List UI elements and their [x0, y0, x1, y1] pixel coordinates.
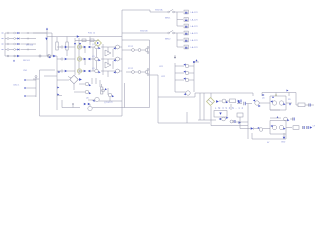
node	[74, 43, 76, 45]
label	[128, 46, 134, 48]
svg-text:LM393N-12: LM393N-12	[215, 107, 244, 110]
label	[215, 107, 244, 110]
wire	[33, 43, 36, 45]
node	[57, 87, 59, 89]
wire	[193, 62, 195, 92]
transistor Q34	[108, 93, 114, 97]
wire	[158, 96, 195, 98]
label	[267, 142, 270, 144]
switch SW1	[168, 9, 175, 13]
resistor R11	[56, 42, 58, 50]
resistor R13	[82, 39, 86, 42]
lamp L6	[184, 45, 188, 49]
connector J5	[33, 76, 39, 98]
label	[191, 25, 199, 28]
wire	[107, 47, 109, 53]
pin	[2, 43, 4, 45]
resistor R31	[101, 84, 103, 94]
transistor Q23	[101, 69, 122, 74]
lamp L2	[184, 18, 188, 22]
wire	[112, 61, 114, 69]
wire	[252, 138, 286, 140]
lamp L5	[184, 38, 188, 42]
wire	[21, 38, 27, 40]
svg-text:LA-12V: LA-12V	[191, 25, 199, 28]
connector J2	[7, 38, 9, 40]
wire	[122, 10, 152, 12]
svg-text:LA-12V: LA-12V	[191, 39, 199, 42]
transistor Q33	[88, 97, 99, 102]
wire	[270, 96, 286, 110]
contact	[147, 47, 149, 54]
switch S1	[26, 32, 33, 34]
svg-text:LA-12V: LA-12V	[191, 11, 199, 14]
transistor Q13	[90, 69, 101, 73]
wire	[47, 36, 122, 38]
wire	[74, 38, 76, 75]
diode D5	[53, 55, 56, 58]
diode D3	[17, 43, 19, 45]
wire	[270, 121, 286, 135]
wire	[84, 59, 86, 65]
wire	[174, 63, 176, 92]
fuse F4	[14, 49, 18, 51]
lamp L4	[184, 31, 188, 35]
svg-text:LA-12V: LA-12V	[191, 19, 199, 22]
transistor Q43	[175, 78, 194, 82]
wire	[199, 93, 201, 120]
svg-text:SW21B: SW21B	[140, 30, 148, 32]
label	[165, 39, 171, 41]
LED	[77, 57, 81, 61]
transistor Q60	[257, 127, 270, 131]
label R10	[88, 32, 96, 34]
LED D15	[95, 40, 102, 47]
wire	[177, 39, 183, 41]
label	[92, 56, 96, 58]
wire	[176, 33, 178, 47]
wire	[289, 93, 296, 106]
node	[57, 71, 60, 73]
wire	[5, 38, 7, 40]
label	[191, 32, 199, 35]
connector J1	[7, 32, 9, 34]
label	[191, 39, 199, 42]
diode D6	[17, 55, 19, 57]
wire	[109, 97, 111, 101]
transistor Q46	[219, 117, 229, 121]
node A	[46, 28, 48, 56]
resistor R53	[296, 103, 305, 107]
wire	[158, 122, 210, 124]
label	[23, 70, 28, 72]
label	[26, 45, 34, 47]
wire	[73, 84, 75, 91]
wire	[177, 46, 183, 48]
diode D12	[57, 58, 75, 61]
wire	[285, 134, 287, 139]
label	[92, 68, 96, 70]
transistor Q51	[253, 99, 270, 107]
wire	[33, 49, 36, 51]
label	[281, 142, 286, 144]
diode D41	[239, 121, 242, 124]
label	[140, 30, 148, 32]
wire	[124, 83, 126, 108]
wire	[247, 104, 249, 140]
capacitor C42	[230, 120, 235, 123]
wire	[198, 119, 216, 121]
wire	[9, 38, 14, 40]
resistor R12	[66, 37, 68, 57]
wire	[5, 43, 7, 45]
lamp L3	[184, 24, 188, 28]
wire	[122, 40, 150, 108]
svg-text:3R 313: 3R 313	[26, 45, 34, 47]
transistor Q42	[175, 71, 194, 75]
wire	[211, 125, 248, 127]
node	[263, 94, 265, 96]
label	[159, 66, 164, 68]
transistor Q31	[79, 82, 91, 86]
wire	[240, 128, 248, 130]
wire	[195, 92, 253, 94]
transistor Q45	[219, 99, 228, 103]
label	[13, 85, 20, 87]
wire	[95, 78, 97, 84]
LED	[77, 69, 81, 73]
transistor Q44	[175, 91, 190, 96]
wire	[270, 109, 280, 111]
wire	[107, 71, 109, 77]
label	[104, 102, 113, 104]
switch S2	[26, 38, 33, 40]
LED	[77, 45, 81, 49]
pin	[2, 32, 4, 34]
switch S4	[26, 49, 33, 51]
label	[191, 46, 199, 49]
wire	[51, 33, 53, 56]
wire	[9, 32, 14, 34]
pin 3	[25, 95, 37, 97]
wire	[237, 103, 242, 105]
diode D13	[57, 70, 75, 73]
label	[191, 19, 199, 22]
transistor Q53	[279, 101, 285, 106]
diode D2	[17, 37, 19, 39]
wire	[288, 93, 290, 97]
wire	[230, 104, 232, 110]
wire	[122, 32, 167, 34]
capacitor C52	[244, 102, 253, 105]
diode D11	[57, 46, 75, 49]
diode D32	[84, 103, 90, 105]
switch S3	[26, 43, 33, 45]
pin 2	[25, 87, 37, 89]
label	[161, 76, 166, 78]
wire	[89, 37, 91, 46]
wire	[40, 70, 123, 116]
transistor Q41	[175, 64, 194, 68]
diode D23	[79, 70, 90, 73]
wire	[99, 80, 101, 87]
svg-text:GND: GND	[281, 142, 286, 144]
relay K2	[126, 71, 148, 74]
diode D33	[88, 104, 150, 111]
node E	[72, 103, 73, 107]
svg-text:BR21: BR21	[165, 18, 171, 20]
wire	[121, 10, 123, 116]
wire	[261, 93, 263, 97]
capacitor C41	[238, 100, 241, 103]
relay K1	[122, 49, 148, 52]
label	[86, 97, 90, 99]
node D	[238, 101, 240, 103]
current source I1	[45, 38, 47, 40]
transistor Q22	[101, 57, 122, 62]
wire	[251, 133, 253, 139]
label	[262, 98, 266, 100]
fuse F2	[14, 38, 18, 40]
capacitor C51	[305, 104, 314, 107]
capacitor C64	[310, 126, 312, 128]
pin	[2, 49, 4, 51]
wire	[175, 32, 184, 34]
wire	[91, 78, 93, 84]
connector J4	[7, 49, 9, 51]
wire	[56, 56, 58, 110]
wire	[252, 93, 254, 96]
svg-text:SB 101: SB 101	[23, 60, 31, 62]
wire	[107, 59, 109, 65]
wire	[56, 37, 58, 42]
resistor R63	[293, 126, 299, 130]
svg-text:BR22: BR22	[165, 39, 171, 41]
wire	[194, 93, 196, 97]
wire	[286, 127, 292, 129]
wire	[33, 32, 47, 34]
transistor Q62	[279, 125, 285, 130]
pin	[2, 38, 4, 40]
transistor Q11	[90, 45, 101, 49]
transistor Q52	[270, 96, 276, 105]
wire	[176, 12, 178, 26]
wire	[5, 32, 7, 34]
wire	[235, 121, 248, 123]
wire	[262, 92, 289, 94]
transistor Q35	[102, 88, 108, 92]
wire	[9, 49, 14, 51]
wire	[21, 49, 27, 51]
wire	[177, 19, 183, 21]
resistor R41	[226, 99, 236, 103]
ground	[283, 133, 286, 139]
capacitor C62	[290, 118, 294, 121]
node	[57, 94, 62, 96]
wire	[96, 49, 98, 57]
transistor Q63	[284, 117, 290, 121]
wire	[194, 59, 199, 62]
wire	[203, 93, 205, 120]
wire	[99, 100, 122, 102]
wire	[78, 38, 80, 75]
resistor R61	[237, 113, 243, 129]
svg-text:SW21A: SW21A	[155, 8, 163, 11]
wire	[177, 25, 183, 27]
wire	[44, 75, 57, 77]
pin 1	[25, 79, 37, 81]
wire	[96, 61, 98, 69]
label	[128, 68, 134, 70]
wire	[102, 44, 104, 75]
svg-text:LA-12V: LA-12V	[191, 46, 199, 49]
optocoupler U31	[214, 111, 227, 118]
wire	[4, 33, 6, 56]
diode D21	[79, 46, 90, 49]
wire	[275, 93, 277, 97]
switch SW2	[168, 30, 175, 33]
wire	[286, 103, 292, 106]
node	[287, 90, 289, 92]
svg-text:R10 1k: R10 1k	[88, 32, 96, 34]
wire	[210, 93, 212, 98]
fuse F1	[14, 32, 18, 34]
transistor Q21	[101, 45, 122, 50]
wire	[112, 49, 114, 57]
svg-text:CN2-1: CN2-1	[13, 85, 20, 87]
label	[92, 44, 96, 46]
wire	[175, 11, 184, 13]
wire	[75, 40, 99, 42]
fuse F5	[14, 55, 16, 57]
transistor Q2	[47, 54, 51, 58]
buffer	[105, 50, 111, 56]
fuse F3	[14, 43, 18, 45]
diode D1	[17, 32, 19, 34]
wire	[21, 43, 27, 45]
wire	[210, 106, 212, 126]
node	[79, 43, 81, 45]
node C	[193, 61, 195, 63]
buffer	[105, 62, 111, 68]
resistor R14	[90, 39, 94, 42]
wire	[150, 75, 159, 123]
node VCC	[77, 35, 79, 37]
label	[155, 8, 163, 11]
contact	[147, 69, 149, 76]
wire	[21, 32, 27, 34]
label	[165, 18, 171, 20]
wire	[5, 55, 57, 57]
wire	[62, 100, 80, 108]
wire	[152, 11, 167, 13]
diode D61	[248, 127, 258, 130]
capacitor C63	[303, 126, 309, 129]
wire	[9, 43, 14, 45]
bridge BR1	[207, 98, 219, 106]
wire	[270, 117, 281, 119]
wire	[33, 32, 52, 34]
wire	[186, 112, 188, 123]
lamp L1	[184, 10, 188, 14]
wire	[84, 47, 86, 53]
diode D4	[17, 48, 19, 50]
label	[288, 99, 291, 101]
svg-text:LA-12V: LA-12V	[191, 32, 199, 35]
diode D22	[79, 58, 90, 61]
label	[23, 60, 31, 62]
svg-text:Q7 B772: Q7 B772	[104, 102, 113, 104]
transistor Q12	[90, 57, 101, 61]
transistor Q1	[39, 55, 41, 57]
LED D30	[57, 75, 82, 83]
node	[13, 60, 15, 62]
transistor Q61	[270, 116, 278, 130]
wire	[33, 38, 36, 40]
wire	[107, 88, 109, 95]
label	[191, 11, 199, 14]
node B	[174, 55, 175, 58]
wire	[5, 49, 7, 51]
connector J5a	[7, 55, 9, 57]
transistor Q32	[74, 90, 91, 94]
connector J3	[7, 43, 9, 45]
wire	[92, 47, 94, 71]
label	[313, 125, 316, 127]
